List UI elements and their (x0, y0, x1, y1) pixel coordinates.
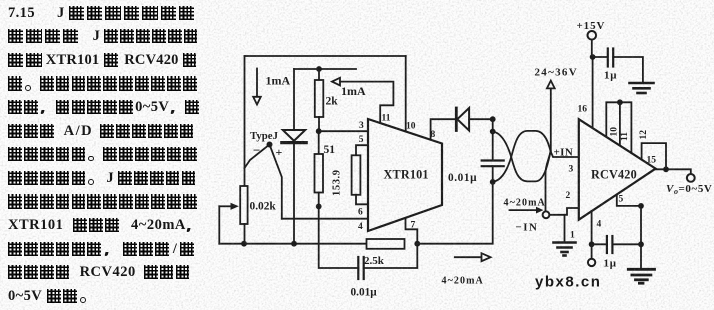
Chinese caption text column (simulated CJK glyphs) (8, 6, 194, 22)
node diode bottom (291, 241, 297, 247)
wire diode branch (293, 69, 295, 130)
svg-text:3: 3 (569, 165, 574, 175)
op-amp block RCV420 (579, 119, 656, 220)
potentiometer 0.02k (219, 186, 247, 244)
node pin4 cap (589, 241, 595, 247)
node pin7 rail (414, 241, 420, 247)
wire upper rail2 (294, 68, 356, 70)
resistor 2.5k (367, 239, 405, 249)
node pins tie (617, 99, 623, 105)
wire pin 4 (591, 211, 593, 244)
terminal Vo circle (687, 174, 695, 182)
node 2k top (316, 66, 322, 72)
op-amp block XTR101 (368, 119, 442, 231)
svg-text:10: 10 (610, 127, 620, 137)
node pot bottom (241, 241, 247, 247)
wire +IN (551, 151, 579, 157)
capacitor C1 0.01u (358, 244, 417, 279)
twisted pair exit leg to -IN (546, 151, 551, 211)
wire pin 16 (592, 57, 594, 128)
capacitor C4 1u (592, 236, 641, 253)
svg-text:4~20mA: 4~20mA (504, 198, 546, 209)
wire pin 7 (406, 219, 418, 244)
svg-text:12: 12 (639, 130, 649, 140)
ground G1 (554, 243, 576, 256)
wire pin 4 from thermocouple plus (282, 218, 368, 220)
svg-text:4~20mA: 4~20mA (442, 276, 484, 287)
svg-text:Vo=0~5V: Vo=0~5V (666, 183, 712, 196)
capacitor C3 1u (608, 49, 643, 83)
wire pin1 ground branch (564, 215, 566, 242)
terminal minus supply circle (588, 259, 595, 266)
capacitor C2 0.01u line input (482, 119, 504, 182)
supply arrow 24~36V (547, 81, 555, 152)
node pin3 junction (316, 128, 322, 134)
svg-text:ybx8.cn: ybx8.cn (535, 274, 601, 291)
current source arrow 1mA left (253, 69, 261, 105)
svg-text:4: 4 (597, 220, 602, 230)
wire pin 10 (405, 56, 407, 131)
svg-text:16: 16 (578, 105, 588, 115)
wire 51-bottom to RC filter (319, 206, 359, 268)
node output (663, 166, 669, 172)
thermocouple TypeJ junction (245, 142, 282, 219)
wire top rail (245, 55, 406, 57)
svg-text:0.01μ: 0.01μ (448, 172, 477, 184)
node pin5 corner (638, 203, 644, 209)
annotation arrow 4~20mA bottom (455, 253, 491, 261)
resistor 153.9 (352, 145, 368, 204)
terminal +15V (588, 31, 597, 40)
node twisted pair top entry (490, 129, 496, 135)
diode D1 (282, 130, 306, 244)
wire pin 8 to diode D2 (431, 119, 455, 139)
svg-text:RCV420: RCV420 (591, 168, 637, 182)
wire pin 3 (319, 130, 368, 132)
wire pin4 to terminal (591, 244, 593, 258)
svg-text:24~36V: 24~36V (535, 67, 578, 79)
terminal -IN circle (543, 211, 550, 218)
wire output (656, 169, 691, 174)
twisted pair wire A (493, 132, 551, 182)
wire pin 15 loop (642, 143, 666, 169)
svg-text:−IN: −IN (516, 222, 539, 234)
svg-text:1μ: 1μ (604, 70, 617, 82)
svg-text:+15V: +15V (577, 20, 606, 32)
svg-text:11: 11 (620, 132, 630, 141)
annotation arrow 4~20mA mid (510, 207, 544, 214)
paper speckle texture (0, 0, 1, 1)
wire -IN to pin2 (549, 208, 578, 215)
wires pins 10 11 tied (606, 102, 631, 153)
wire pin 5 (617, 195, 641, 268)
node 51 bottom (316, 204, 322, 210)
svg-text:+IN: +IN (554, 147, 574, 159)
current source arrow 1mA right (pin 11) (332, 78, 393, 123)
svg-text:2: 2 (566, 191, 571, 201)
ground G2 (628, 269, 654, 283)
resistor 51 (315, 131, 324, 206)
svg-text:5: 5 (619, 195, 624, 205)
node pin5 cap (638, 241, 644, 247)
ground G3 (630, 83, 654, 93)
resistor 2k (315, 69, 324, 131)
wire +15V rail (592, 40, 608, 57)
node pin16 top (590, 54, 596, 60)
svg-text:1: 1 (570, 231, 575, 241)
wire left rail (244, 56, 246, 186)
wire bottom rail (219, 243, 366, 245)
diode D2 (456, 108, 493, 131)
svg-text:1μ: 1μ (604, 258, 617, 270)
node diode out (490, 116, 496, 122)
svg-text:15: 15 (647, 156, 657, 166)
twisted pair wire B (493, 131, 551, 182)
node twisted pair bottom entry (490, 179, 496, 185)
wire rail to remote loop (417, 182, 492, 244)
